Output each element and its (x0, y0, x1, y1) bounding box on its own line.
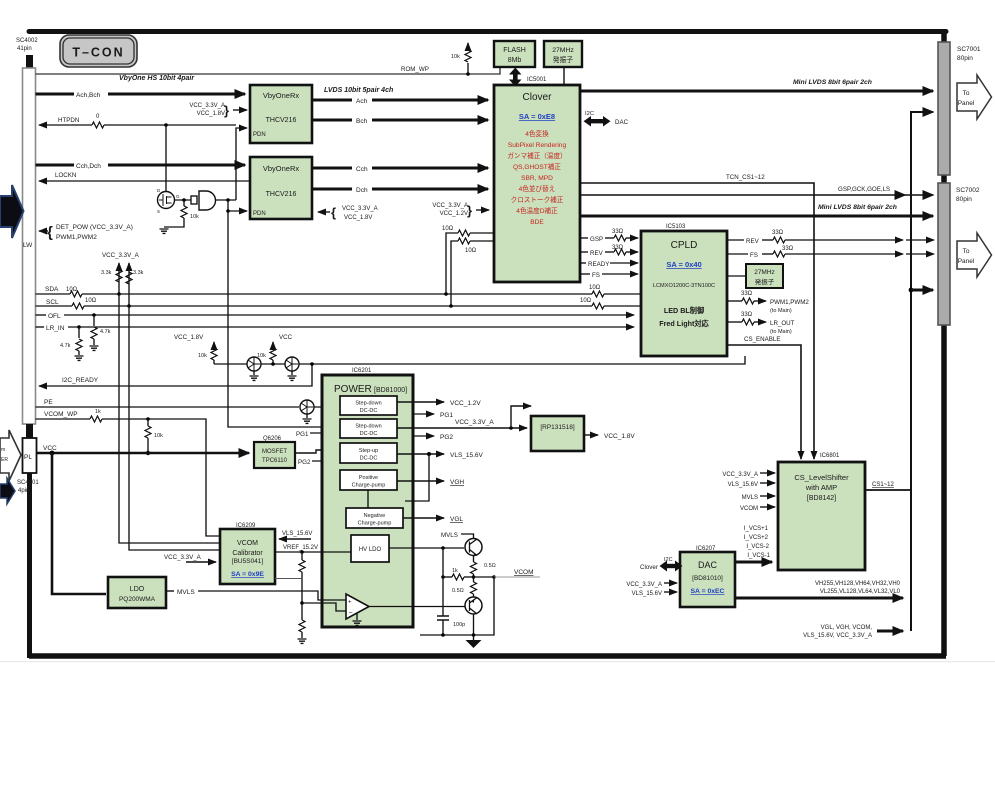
resistor 10k pullup VCC_1.8V (174, 334, 217, 364)
wire PDN to lower receiver and POWER (226, 200, 335, 427)
svg-text:I_VCS+2: I_VCS+2 (744, 535, 769, 541)
svg-text:TCN_CS1~12: TCN_CS1~12 (726, 174, 765, 181)
wire CS_ENABLE (727, 336, 801, 459)
svg-text:33Ω: 33Ω (612, 245, 624, 251)
svg-text:4色温度D補正: 4色温度D補正 (516, 206, 558, 215)
svg-text:4色変換: 4色変換 (525, 129, 549, 138)
IC IC6801 CS_LevelShifter BD8142 (778, 453, 865, 570)
crystal 27MHz (Clover) (544, 41, 582, 67)
svg-text:}: } (224, 103, 229, 118)
svg-text:10k: 10k (257, 353, 266, 359)
wire FS to CPLD (580, 272, 638, 279)
resistor 0.5ohm upper (471, 556, 496, 578)
IC IC6209 VCOM Calibrator (220, 523, 275, 584)
transistor PNP (VCOM pull) (465, 597, 482, 635)
svg-text:SCL: SCL (46, 299, 59, 306)
transistor open-drain buffer C on PE (300, 400, 314, 423)
svg-text:VCC_3.3V_A: VCC_3.3V_A (342, 206, 378, 212)
svg-text:I2C_READY: I2C_READY (62, 377, 99, 384)
wire Cch to Clover (312, 166, 488, 173)
wire emitter common / ground (420, 577, 494, 648)
svg-text:PDN: PDN (253, 132, 266, 138)
svg-text:To: To (963, 90, 970, 97)
svg-text:10Ω: 10Ω (465, 248, 477, 254)
wire pos to neg pump (367, 490, 369, 508)
wire Ach,Bch bus (36, 75, 246, 99)
svg-text:Panel: Panel (958, 100, 975, 107)
wire VLS_15.6V into calibrator (279, 531, 312, 539)
svg-text:[BD81010]: [BD81010] (692, 575, 723, 582)
svg-text:READY: READY (588, 261, 609, 268)
svg-text:[RP131518]: [RP131518] (540, 424, 575, 431)
svg-text:GSP: GSP (590, 236, 603, 243)
svg-text:[BD81000]: [BD81000] (374, 387, 407, 394)
crystal 27MHz (CPLD) (727, 264, 783, 288)
svg-text:80pin: 80pin (956, 196, 972, 203)
svg-text:VCC_3.3V_A: VCC_3.3V_A (722, 472, 758, 478)
svg-text:FLASH: FLASH (503, 47, 526, 54)
svg-text:VCC_3.3V_A: VCC_3.3V_A (102, 252, 140, 259)
wire LOCKN (39, 172, 250, 181)
wire top border (29, 29, 946, 34)
small black arrow lower-left (0, 478, 15, 504)
svg-text:CS_ENABLE: CS_ENABLE (744, 336, 780, 343)
svg-text:80pin: 80pin (957, 55, 973, 62)
svg-text:VCC_1.2V: VCC_1.2V (440, 211, 468, 217)
svg-text:SubPixel Rendering: SubPixel Rendering (508, 142, 567, 149)
wire Cch,Dch bus (36, 163, 246, 170)
svg-text:ER: ER (1, 457, 8, 463)
op-amp U (VCOM buffer) (346, 594, 369, 625)
svg-text:CS1~12: CS1~12 (872, 482, 895, 488)
wire VCC_1.2V out (397, 400, 481, 407)
svg-text:VH255,VH128,VH64,VH32,VH0: VH255,VH128,VH64,VH32,VH0 (815, 581, 901, 587)
resistor 4.7k on OFL (90, 315, 111, 350)
wire SCL (36, 298, 642, 309)
svg-text:QS,GHOST補正: QS,GHOST補正 (513, 162, 561, 171)
transistor NPN (VCOM push) (441, 532, 482, 556)
svg-text:VCC_1.8V: VCC_1.8V (344, 215, 372, 221)
wire VREF_15.2V to HV LDO (275, 545, 351, 554)
svg-text:4色並び替え: 4色並び替え (519, 184, 556, 193)
wire PG1 out (413, 412, 453, 419)
block HV LDO (351, 535, 389, 562)
svg-text:SC4002: SC4002 (16, 38, 38, 44)
wire ROM_WP (36, 66, 501, 74)
svg-text:LCMXO1200C-3TN100C: LCMXO1200C-3TN100C (653, 283, 715, 289)
resistor 3.3k pull-ups + VCC_3.3V_A (101, 252, 144, 308)
svg-text:(to Main): (to Main) (770, 308, 792, 314)
wire PE (36, 399, 337, 407)
svg-text:10Ω: 10Ω (589, 285, 601, 291)
svg-text:}: } (467, 203, 472, 218)
svg-text:REV: REV (746, 238, 760, 245)
wire Ach to Clover (312, 87, 488, 105)
svg-text:Bch: Bch (356, 118, 368, 125)
wire left border lower segment (27, 473, 32, 658)
connector SC7002 80pin (938, 183, 980, 325)
svg-text:3.3k: 3.3k (133, 270, 144, 276)
wire OFL (36, 313, 635, 320)
svg-text:Dch: Dch (356, 187, 368, 194)
svg-text:41pin: 41pin (17, 46, 32, 52)
svg-text:MVLS: MVLS (742, 495, 758, 501)
transistor Q (P-MOSFET) detect (157, 125, 191, 214)
arrow from power (white outline) (0, 430, 21, 481)
svg-text:VREF_15.2V: VREF_15.2V (283, 545, 318, 551)
svg-text:CPLD: CPLD (671, 240, 698, 251)
svg-text:LOCKN: LOCKN (55, 172, 76, 179)
svg-text:0.5Ω: 0.5Ω (452, 588, 464, 594)
svg-text:−: − (349, 610, 353, 617)
svg-text:SBR, MPD: SBR, MPD (521, 175, 553, 182)
IC VbyOneRx THCV216 (upper) (250, 85, 312, 143)
resistor divider on VREF (298, 552, 307, 643)
wire FS out of CPLD (727, 246, 934, 259)
svg-text:LED BL制御: LED BL制御 (664, 306, 704, 315)
svg-text:ガンマ補正（温度）: ガンマ補正（温度） (507, 151, 566, 160)
svg-text:SC7002: SC7002 (956, 187, 980, 194)
svg-text:I2C: I2C (585, 111, 594, 117)
wire op-amp output to PNP base (369, 606, 465, 608)
svg-text:DAC: DAC (615, 119, 629, 126)
svg-text:FS: FS (750, 252, 758, 259)
brace VCC supply into Clover (432, 203, 489, 218)
wire VGH out (397, 479, 464, 486)
IC IC6207 DAC BD81010 (680, 546, 735, 607)
wire calibrator aux out (275, 578, 301, 580)
connector SC4002 41pin (16, 38, 38, 424)
svg-text:VLS_15.6V: VLS_15.6V (632, 591, 662, 597)
svg-text:VCC: VCC (43, 445, 57, 452)
svg-text:(to Main): (to Main) (770, 329, 792, 335)
svg-text:THCV216: THCV216 (266, 117, 297, 124)
wire VGL out (403, 516, 463, 523)
svg-text:Panel: Panel (958, 258, 975, 265)
svg-text:10k: 10k (190, 214, 199, 220)
page separation line (0, 661, 995, 662)
resistor 10Q SDA into Clover (442, 226, 494, 296)
svg-text:IC6801: IC6801 (820, 453, 840, 459)
svg-text:{: { (47, 224, 53, 241)
wire open-drain line to CPLD (214, 356, 745, 366)
svg-text:VCC_1.2V: VCC_1.2V (450, 400, 481, 407)
svg-text:I_VCS-1: I_VCS-1 (747, 553, 770, 559)
to panel arrow 1 (957, 75, 992, 119)
wire DET_POW / PWM brace (39, 224, 133, 241)
svg-text:HTPDN: HTPDN (58, 117, 79, 124)
svg-text:発振子: 発振子 (755, 277, 775, 286)
svg-text:4.7k: 4.7k (60, 343, 71, 349)
svg-text:PQ200WMA: PQ200WMA (119, 596, 156, 603)
svg-text:10Ω: 10Ω (85, 298, 97, 304)
T-CON label box (60, 35, 137, 67)
svg-text:8Mb: 8Mb (508, 57, 522, 64)
svg-text:IC5001: IC5001 (527, 77, 547, 83)
input arrow (main signal in) (0, 185, 24, 238)
wire MVLS into CS_LS (742, 495, 775, 501)
wire SDA (36, 285, 642, 297)
svg-text:SA = 0xE8: SA = 0xE8 (519, 112, 555, 121)
wire PG1 feedback stub (296, 431, 336, 438)
svg-text:Clover: Clover (640, 564, 658, 571)
svg-text:MVLS: MVLS (441, 532, 458, 539)
wire PG2 feedback stub (298, 459, 336, 466)
svg-text:IC6201: IC6201 (352, 368, 372, 374)
block step-up DC-DC (340, 443, 397, 463)
wire FLASH to Clover (bus) (509, 68, 522, 87)
svg-text:33Ω: 33Ω (612, 229, 624, 235)
svg-text:LDO: LDO (130, 586, 145, 593)
wire VCOM into CS_LS (740, 506, 775, 512)
svg-text:MOSFET: MOSFET (262, 449, 287, 455)
svg-text:POWER: POWER (334, 384, 372, 395)
svg-text:{: { (331, 205, 336, 220)
svg-text:DC-DC: DC-DC (360, 456, 378, 462)
svg-text:27MHz: 27MHz (754, 269, 775, 276)
transistor open-drain buffer A (247, 357, 261, 380)
svg-text:Step-down: Step-down (355, 424, 381, 430)
wire VLS_15.6V out (397, 452, 484, 501)
svg-text:27MHz: 27MHz (552, 47, 574, 54)
wire VCC_3.3V_A out to RP131518 (397, 406, 531, 430)
svg-text:10k: 10k (451, 54, 460, 60)
svg-text:4pin: 4pin (18, 488, 29, 494)
svg-text:VCC_3.3V_A: VCC_3.3V_A (189, 103, 225, 109)
svg-text:PDN: PDN (253, 211, 266, 217)
resistor 1k to VCOM node (441, 548, 473, 616)
wire I2C branch down to VCOM calibrator (119, 294, 220, 550)
svg-text:FS: FS (592, 272, 600, 279)
svg-text:1k: 1k (452, 568, 458, 574)
svg-text:+: + (348, 600, 352, 606)
block step-down DC-DC 2 (340, 419, 397, 438)
svg-text:I_VCS+1: I_VCS+1 (744, 526, 769, 532)
wire PWM1,PWM2 out (727, 291, 809, 314)
wire Clover I2C into DAC (640, 557, 683, 572)
svg-text:33Ω: 33Ω (782, 246, 794, 252)
resistor 10k on gate node (160, 200, 200, 233)
wire CS1~12 out (865, 482, 911, 490)
wire VLS_15.6V into CS_LS (728, 482, 775, 488)
wire GSP to CPLD (580, 229, 638, 243)
svg-text:DAC: DAC (698, 560, 718, 570)
svg-text:G: G (176, 194, 180, 199)
IC LDO PQ200WMA (108, 577, 166, 608)
svg-text:33Ω: 33Ω (772, 230, 784, 236)
svg-text:VL255,VL128,VL64,VL32,VL0: VL255,VL128,VL64,VL32,VL0 (820, 589, 901, 595)
block positive charge-pump (340, 470, 397, 490)
node VCOM (472, 569, 540, 579)
svg-text:I_VCS-2: I_VCS-2 (746, 544, 769, 550)
wire VCC_3.3V_A into calibrator (164, 554, 216, 562)
svg-text:PWM1,PWM2: PWM1,PWM2 (770, 299, 809, 306)
capacitor 100p (437, 616, 465, 635)
wire Mini LVDS bus 1 to SC7001 (580, 79, 933, 91)
svg-text:OFL: OFL (48, 313, 61, 320)
wire right border (941, 30, 947, 656)
node I_VCS labels (744, 526, 771, 559)
svg-text:VCC_1.8V: VCC_1.8V (604, 433, 635, 440)
svg-text:REV: REV (590, 250, 604, 257)
wire VCC_1.8V out (584, 433, 635, 440)
svg-text:ROM_WP: ROM_WP (401, 66, 429, 73)
wire HTPDN (39, 114, 236, 128)
svg-text:Mini LVDS 8bit 6pair 2ch: Mini LVDS 8bit 6pair 2ch (793, 79, 872, 86)
svg-text:VLS_15.6V: VLS_15.6V (728, 482, 758, 488)
svg-text:10Ω: 10Ω (580, 298, 592, 304)
wire REV to CPLD (580, 245, 638, 257)
svg-text:SC7001: SC7001 (957, 46, 981, 53)
svg-text:with AMP: with AMP (805, 483, 837, 492)
wire I2C to DAC stub (584, 111, 629, 127)
svg-text:VbyOneRx: VbyOneRx (263, 164, 300, 173)
svg-text:VGH: VGH (450, 479, 464, 486)
svg-text:Charge-pump: Charge-pump (358, 521, 392, 527)
svg-text:4.7k: 4.7k (100, 329, 111, 335)
svg-text:SA = 0x40: SA = 0x40 (666, 260, 701, 269)
to panel arrow 2 (957, 233, 992, 277)
svg-text:LR_OUT: LR_OUT (770, 320, 795, 327)
wire HV LDO out to NPN base (389, 546, 464, 550)
svg-text:Cch: Cch (356, 166, 368, 173)
svg-text:[BD8142]: [BD8142] (807, 495, 836, 502)
gate buffer (PDN control) (191, 191, 236, 210)
svg-text:DC-DC: DC-DC (360, 431, 378, 437)
svg-text:PE: PE (44, 399, 53, 406)
wire bottom border (29, 653, 946, 659)
wire TCN_CS1~12 (580, 174, 814, 459)
svg-text:GSP,GCK,GOE,LS: GSP,GCK,GOE,LS (838, 186, 890, 193)
resistor 4.7k on LR_IN (60, 327, 84, 360)
block negative charge-pump (346, 508, 403, 528)
svg-text:33Ω: 33Ω (741, 312, 753, 318)
IC RP131518 regulator (531, 416, 584, 451)
wire 27MHz to Clover (563, 67, 565, 85)
svg-text:[BU5S041]: [BU5S041] (232, 558, 264, 565)
svg-text:クロストーク補正: クロストーク補正 (511, 195, 564, 204)
svg-text:発振子: 発振子 (553, 55, 574, 64)
svg-text:Cch,Dch: Cch,Dch (76, 163, 101, 170)
svg-text:Fred Light対応: Fred Light対応 (659, 319, 709, 328)
svg-text:PWM1,PWM2: PWM1,PWM2 (56, 234, 97, 241)
wire Mini LVDS bus 2 to SC7002 (580, 204, 933, 216)
svg-text:Ach,Bch: Ach,Bch (76, 92, 101, 99)
svg-text:SA = 0x9E: SA = 0x9E (231, 571, 264, 578)
svg-text:1k: 1k (95, 409, 101, 415)
svg-text:DC-DC: DC-DC (360, 408, 378, 414)
wire VLS_15.6V into DAC (632, 591, 677, 597)
wire LR_OUT out (727, 312, 795, 335)
svg-text:VbyOneRx: VbyOneRx (263, 91, 300, 100)
svg-text:VCOM: VCOM (237, 540, 258, 547)
wire divider to op-amp inverting input (302, 603, 346, 611)
svg-text:Step-down: Step-down (355, 401, 381, 407)
svg-text:VbyOne HS 10bit 4pair: VbyOne HS 10bit 4pair (119, 75, 195, 82)
wire PG2 out (413, 434, 453, 441)
IC FLASH 8Mb (494, 41, 535, 67)
svg-text:VCC_1.8V: VCC_1.8V (174, 334, 204, 341)
transistor open-drain buffer B (285, 357, 299, 380)
svg-text:PL: PL (24, 454, 32, 461)
svg-text:IC5103: IC5103 (666, 224, 686, 230)
svg-text:VCOM: VCOM (514, 569, 534, 576)
svg-text:VLS_15.6V: VLS_15.6V (282, 531, 312, 537)
IC CPLD IC5103 (641, 224, 727, 356)
brace VCC supply into lower VbyOneRx (318, 205, 378, 221)
svg-text:VCC_3.3V_A: VCC_3.3V_A (432, 203, 468, 209)
IC VbyOneRx THCV216 (lower) (250, 157, 312, 219)
wire MOSFET out to step-up (295, 450, 336, 453)
IC U Clover IC5001 (494, 77, 580, 282)
svg-text:Clover: Clover (523, 92, 553, 103)
wire Bch to Clover (312, 118, 488, 125)
svg-text:CS_LevelShifter: CS_LevelShifter (794, 473, 849, 482)
svg-text:10Ω: 10Ω (442, 226, 454, 232)
svg-text:SDA: SDA (45, 286, 59, 293)
svg-text:MVLS: MVLS (177, 589, 195, 596)
svg-text:HV LDO: HV LDO (359, 547, 382, 553)
svg-text:Mini LVDS 8bit 6pair 2ch: Mini LVDS 8bit 6pair 2ch (818, 204, 897, 211)
resistor 10k between VCOM_WP and VCC (145, 417, 163, 455)
svg-text:VCOM: VCOM (740, 506, 758, 512)
transistor Q6206 MOSFET TPC6110 (254, 436, 295, 468)
svg-text:VCC_3.3V_A: VCC_3.3V_A (164, 554, 202, 561)
svg-text:PG1: PG1 (440, 412, 453, 419)
svg-text:m: m (1, 447, 5, 453)
svg-text:100p: 100p (453, 622, 465, 628)
svg-text:VCC: VCC (279, 334, 293, 341)
svg-text:VCOM_WP: VCOM_WP (44, 411, 78, 418)
svg-text:Charge-pump: Charge-pump (352, 483, 386, 489)
wire CS vertical bus to panels (909, 112, 933, 631)
svg-text:VGL, VGH, VCOM,: VGL, VGH, VCOM, (821, 625, 873, 631)
svg-text:VCC_3.3V_A: VCC_3.3V_A (626, 582, 662, 588)
svg-text:10k: 10k (154, 433, 163, 439)
svg-text:DET_POW (VCC_3.3V_A): DET_POW (VCC_3.3V_A) (56, 224, 133, 231)
svg-text:VCC_3.3V_A: VCC_3.3V_A (455, 419, 494, 426)
IC IC6201 POWER BD81000 (322, 368, 413, 627)
svg-text:LVDS 10bit 5pair 4ch: LVDS 10bit 5pair 4ch (324, 87, 393, 94)
wire Dch to Clover (312, 187, 488, 194)
wire READY to CPLD (580, 261, 638, 268)
svg-text:To: To (963, 248, 970, 255)
brace VCC supply into upper VbyOneRx (189, 103, 247, 118)
resistor 10k pullup VCC (257, 334, 293, 366)
wire VCOM_WP (36, 409, 221, 536)
wire LR_IN (36, 325, 635, 332)
svg-text:LW: LW (23, 242, 33, 249)
svg-text:SA = 0xEC: SA = 0xEC (691, 588, 725, 595)
svg-text:Step-up: Step-up (359, 448, 378, 454)
svg-text:Ach: Ach (356, 98, 368, 105)
svg-text:VGL: VGL (450, 516, 463, 523)
wire I2C_READY (39, 364, 312, 386)
svg-text:TPC6110: TPC6110 (262, 458, 288, 464)
resistor 10Q SCL into Clover (449, 238, 494, 308)
svg-text:PG2: PG2 (298, 459, 311, 466)
wire PDN to upper receiver (236, 128, 247, 200)
wire REV out of CPLD (727, 230, 934, 245)
svg-text:10k: 10k (198, 353, 207, 359)
svg-text:BDE: BDE (530, 219, 544, 226)
block step-down DC-DC 1 (340, 396, 397, 415)
svg-text:0.5Ω: 0.5Ω (484, 563, 496, 569)
svg-text:Negative: Negative (364, 513, 386, 519)
svg-text:PG1: PG1 (296, 431, 309, 438)
wire VCC_3.3V_A into DAC (626, 582, 677, 588)
wire VGL,VGH,VCOM supply bus (803, 625, 903, 639)
